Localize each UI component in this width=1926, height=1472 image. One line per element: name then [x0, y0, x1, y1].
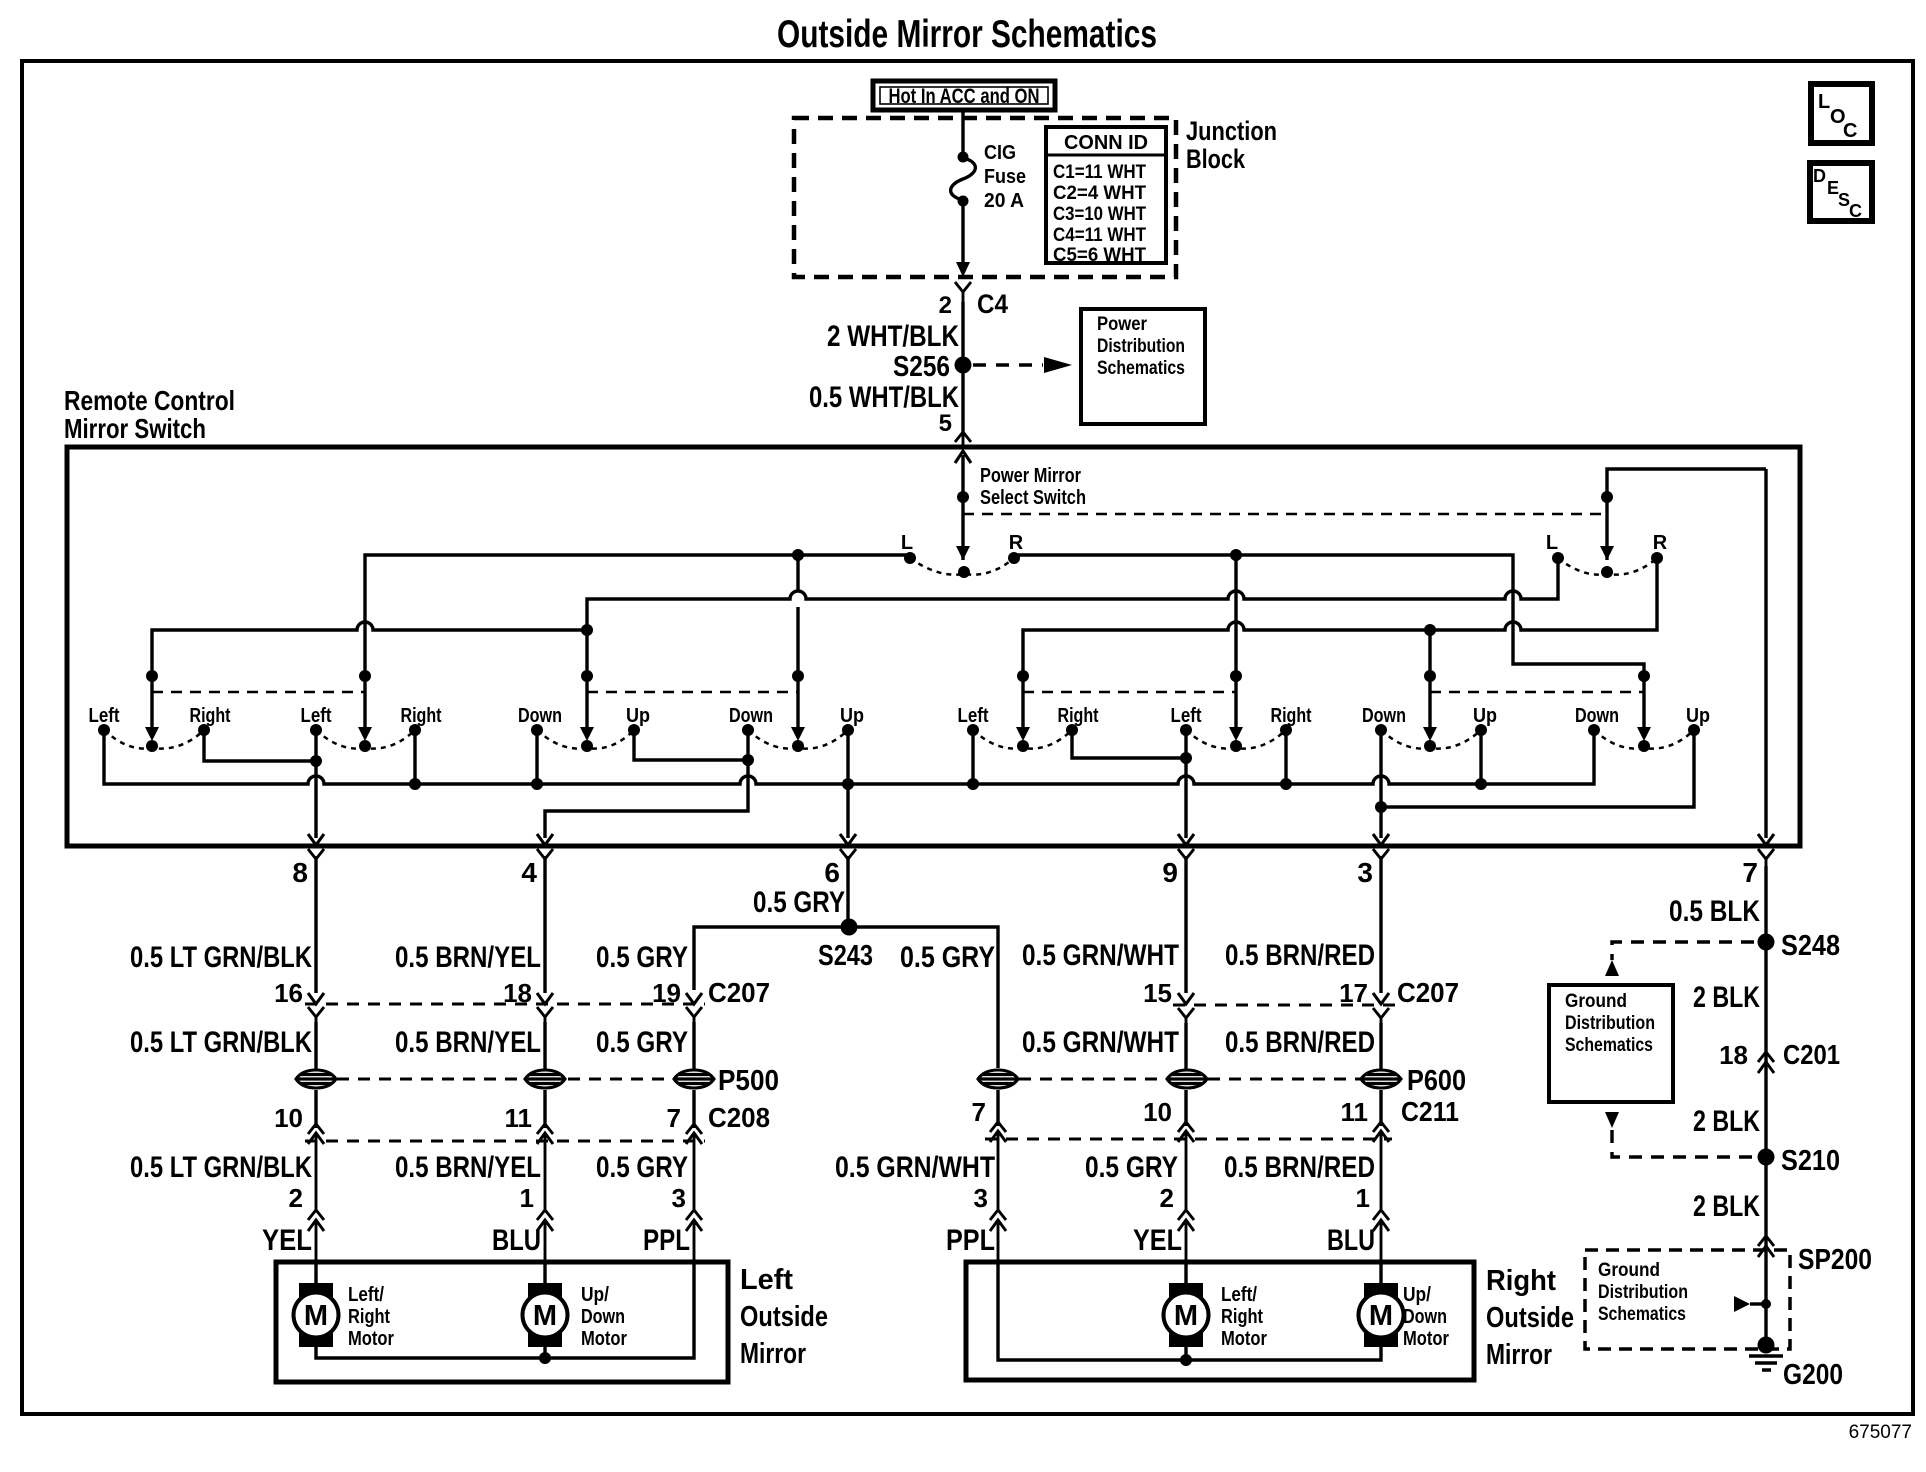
rocker 1 contacts Left/Right	[89, 705, 231, 752]
wire Left3 contact drop	[971, 730, 974, 784]
connector C207 pin 15 arrow	[1178, 993, 1194, 1004]
dashed mechanical links between rockers	[152, 691, 365, 694]
splice pack SP200	[1758, 1236, 1774, 1257]
svg-text:0.5 GRY: 0.5 GRY	[596, 1151, 688, 1184]
svg-text:Right: Right	[1486, 1265, 1556, 1297]
svg-text:Motor: Motor	[1221, 1328, 1267, 1350]
connector C207 pin 15 fork	[1178, 1008, 1194, 1027]
node on select feed left	[957, 491, 969, 503]
svg-text:Left: Left	[740, 1264, 793, 1296]
wire R1 bus y555 to P8	[1014, 555, 1644, 732]
svg-text:M: M	[1369, 1300, 1393, 1332]
connector C207 pin 19 fork	[686, 1007, 702, 1026]
rocker 7 contacts Down/Up	[1362, 705, 1497, 752]
svg-text:Junction: Junction	[1186, 116, 1277, 146]
arrow to pole4	[791, 727, 805, 741]
svg-text:2 WHT/BLK: 2 WHT/BLK	[827, 320, 959, 353]
svg-text:2: 2	[1160, 1183, 1174, 1213]
connector left mirror pin 3 glyphs	[686, 1180, 702, 1262]
connector C211 pin 7 glyphs	[990, 1113, 1006, 1180]
arrow to pole6	[1229, 727, 1243, 741]
left select contact R	[1008, 552, 1020, 564]
node pole5 feed	[1017, 670, 1029, 682]
connector C211 pin 11 glyphs	[1373, 1113, 1389, 1180]
P600 grommet right 2	[1167, 1070, 1207, 1088]
svg-text:Hot In ACC and ON: Hot In ACC and ON	[889, 85, 1040, 108]
svg-text:Left: Left	[301, 705, 332, 727]
svg-text:Right: Right	[1271, 705, 1312, 727]
wire L3 bus y599 with hops	[587, 558, 1558, 732]
svg-text:1: 1	[520, 1183, 534, 1213]
CONN ID table	[1046, 127, 1166, 266]
svg-text:Schematics: Schematics	[1565, 1035, 1653, 1056]
svg-text:S256: S256	[893, 351, 950, 383]
right select wiper dashed arc	[1558, 558, 1657, 575]
svg-text:0.5 GRN/WHT: 0.5 GRN/WHT	[835, 1151, 995, 1184]
node pole8 feed	[1638, 670, 1650, 682]
svg-text:C: C	[1849, 201, 1862, 221]
connector C207 pin 19 arrow	[686, 993, 702, 1004]
wire pin3 column to C207	[1379, 856, 1382, 993]
svg-text:19: 19	[652, 978, 681, 1008]
jog Right1 to pin8 line	[204, 730, 316, 761]
svg-text:BLU: BLU	[492, 1224, 541, 1257]
svg-text:BLU: BLU	[1327, 1224, 1375, 1257]
svg-text:Distribution: Distribution	[1565, 1013, 1655, 1034]
P500 grommet left 2	[525, 1070, 565, 1088]
wire pin5 into box with up arrow	[961, 455, 964, 560]
svg-text:2 BLK: 2 BLK	[1693, 1105, 1760, 1138]
svg-text:Schematics: Schematics	[1598, 1304, 1686, 1325]
svg-text:Fuse: Fuse	[984, 166, 1026, 188]
svg-text:C207: C207	[708, 977, 770, 1008]
svg-text:Mirror: Mirror	[1486, 1339, 1552, 1371]
arrow to pole5	[1016, 727, 1030, 741]
node pole4 feed	[792, 670, 804, 682]
svg-text:3: 3	[672, 1183, 686, 1213]
wire feed P7 vertical	[1428, 630, 1431, 732]
svg-text:2: 2	[289, 1183, 303, 1213]
node pole6 feed	[1230, 670, 1242, 682]
left select contact L	[904, 552, 916, 564]
svg-text:Power: Power	[1097, 314, 1148, 335]
svg-text:R: R	[1653, 532, 1668, 554]
arrow to pole2	[358, 727, 372, 741]
connector C4 fork	[955, 282, 971, 302]
svg-text:Ground: Ground	[1598, 1260, 1660, 1281]
DESC box	[1810, 163, 1872, 221]
svg-text:16: 16	[274, 978, 303, 1008]
svg-text:C: C	[1843, 120, 1857, 142]
connector right mirror pin 3 glyphs	[990, 1180, 1006, 1262]
svg-text:Up: Up	[840, 705, 864, 727]
left/right motor right mirror	[1164, 1283, 1268, 1350]
ground wire pin7 column	[1764, 866, 1767, 1345]
svg-text:Right: Right	[1221, 1306, 1263, 1328]
svg-text:0.5 GRY: 0.5 GRY	[900, 941, 995, 974]
dashed ref S248 to ground distribution	[1612, 942, 1754, 960]
wire line3a y630 with hop over P2	[152, 622, 587, 732]
wire Right2 contact drop	[413, 730, 416, 784]
svg-text:Down: Down	[1403, 1306, 1447, 1328]
svg-text:3: 3	[974, 1183, 988, 1213]
svg-text:7: 7	[1742, 857, 1758, 888]
pin 3 drop	[1379, 730, 1382, 838]
svg-text:C3=10 WHT: C3=10 WHT	[1053, 204, 1146, 225]
svg-text:0.5 LT GRN/BLK: 0.5 LT GRN/BLK	[130, 1026, 312, 1059]
svg-text:YEL: YEL	[1133, 1224, 1182, 1257]
svg-text:Motor: Motor	[1403, 1328, 1449, 1350]
connector C207 left dashed	[305, 1003, 705, 1006]
node line3b joint P7	[1424, 624, 1436, 636]
rocker 8 contacts Down/Up	[1575, 705, 1710, 752]
svg-text:2 BLK: 2 BLK	[1693, 981, 1760, 1014]
left select switch arrow to pole	[956, 546, 970, 560]
wire pin8 column to C207	[314, 856, 317, 993]
svg-text:Down: Down	[1362, 705, 1406, 727]
svg-text:Power Mirror: Power Mirror	[980, 465, 1081, 487]
splice S243 tee	[694, 927, 998, 1068]
svg-text:2 BLK: 2 BLK	[1693, 1190, 1760, 1223]
svg-text:Motor: Motor	[581, 1328, 627, 1350]
jog Up4 to pin3 line	[1381, 730, 1694, 807]
svg-text:L: L	[1546, 532, 1558, 554]
connector C207 pin 16 fork	[308, 1007, 324, 1026]
svg-text:Distribution: Distribution	[1598, 1282, 1688, 1303]
wire pin6 column to S243	[846, 856, 849, 927]
node feed P4	[792, 549, 804, 561]
node pole7 feed	[1424, 670, 1436, 682]
svg-text:7: 7	[972, 1097, 986, 1127]
svg-text:Up: Up	[626, 705, 650, 727]
svg-text:Left: Left	[89, 705, 120, 727]
connector C207 pin 17 fork	[1373, 1008, 1389, 1027]
remote control mirror switch box	[67, 447, 1800, 846]
svg-text:C4=11 WHT: C4=11 WHT	[1053, 225, 1146, 246]
svg-text:8: 8	[292, 857, 308, 888]
connector right mirror pin 1 glyphs	[1373, 1180, 1389, 1262]
node Down1 on bus	[531, 778, 543, 790]
svg-text:Select Switch: Select Switch	[980, 487, 1086, 509]
junction block dashed box	[794, 118, 1176, 277]
svg-text:P500: P500	[718, 1065, 779, 1097]
P500 grommet left 3	[674, 1070, 714, 1088]
wire Up3 contact drop	[1479, 730, 1482, 784]
svg-text:SP200: SP200	[1798, 1244, 1872, 1276]
node feed P6	[1230, 549, 1242, 561]
connector right mirror pin 2 glyphs	[1178, 1180, 1194, 1262]
arrow to pole1	[145, 727, 159, 741]
splice S256	[955, 357, 972, 374]
svg-text:7: 7	[667, 1103, 681, 1133]
svg-text:Outside: Outside	[740, 1301, 828, 1333]
wire Down1 contact drop	[535, 730, 538, 784]
svg-text:Motor: Motor	[348, 1328, 394, 1350]
right select contact R	[1651, 552, 1663, 564]
node Right4 on bus	[1280, 778, 1292, 790]
pin 8 drop	[314, 730, 317, 838]
svg-text:0.5 LT GRN/BLK: 0.5 LT GRN/BLK	[130, 1151, 312, 1184]
svg-text:Mirror Switch: Mirror Switch	[64, 413, 206, 444]
svg-text:6: 6	[824, 857, 840, 888]
svg-text:0.5 WHT/BLK: 0.5 WHT/BLK	[809, 381, 959, 414]
connector C207 pin 17 arrow	[1373, 993, 1389, 1004]
P600 grommet right 3	[1361, 1070, 1401, 1088]
node Up3 on bus	[1475, 778, 1487, 790]
common bus wire y784 with hops	[104, 730, 1594, 784]
svg-text:Right: Right	[348, 1306, 390, 1328]
svg-text:Down: Down	[729, 705, 773, 727]
node on select feed right	[1601, 491, 1613, 503]
svg-text:Left/: Left/	[348, 1284, 384, 1306]
svg-text:C5=6 WHT: C5=6 WHT	[1053, 245, 1146, 266]
svg-text:Right: Right	[401, 705, 442, 727]
rocker 6 contacts Left/Right	[1171, 705, 1312, 752]
left/right motor left mirror	[294, 1283, 395, 1350]
svg-text:18: 18	[1719, 1040, 1748, 1070]
svg-text:2: 2	[939, 292, 952, 319]
node Right2 on bus	[409, 778, 421, 790]
right select feed wire from pin7 line	[1607, 469, 1766, 560]
left select wiper dashed arc	[910, 558, 1014, 575]
wire Right4 contact drop	[1284, 730, 1287, 784]
svg-text:Mirror: Mirror	[740, 1338, 806, 1370]
svg-text:M: M	[1174, 1300, 1198, 1332]
svg-text:0.5 BRN/RED: 0.5 BRN/RED	[1224, 1151, 1375, 1184]
connector C211 pin 10 glyphs	[1178, 1113, 1194, 1180]
pin 4 drop	[545, 730, 748, 838]
svg-text:0.5 GRN/WHT: 0.5 GRN/WHT	[1022, 1026, 1179, 1059]
svg-text:Up: Up	[1686, 705, 1710, 727]
svg-text:Right: Right	[190, 705, 231, 727]
svg-text:M: M	[533, 1300, 557, 1332]
svg-text:R: R	[1009, 532, 1024, 554]
svg-text:P600: P600	[1407, 1065, 1466, 1097]
dashed ref ground distribution to S210	[1612, 1130, 1754, 1157]
right outside mirror box	[966, 1262, 1474, 1380]
svg-text:Outside: Outside	[1486, 1302, 1574, 1334]
svg-text:PPL: PPL	[946, 1224, 995, 1257]
svg-text:D: D	[1813, 166, 1826, 186]
svg-text:Ground: Ground	[1565, 991, 1627, 1012]
svg-text:C201: C201	[1783, 1039, 1840, 1070]
connector C207 pin 18 fork	[537, 1007, 553, 1026]
pin 6 drop	[846, 730, 849, 838]
connector forks below switch box	[292, 849, 1774, 888]
wire L1 bus y555	[365, 555, 910, 732]
node pole3 feed	[581, 670, 593, 682]
right select contact L	[1552, 552, 1564, 564]
node pole1 feed	[146, 670, 158, 682]
rocker 5 contacts Left/Right	[958, 705, 1099, 752]
svg-text:C4: C4	[977, 289, 1008, 319]
svg-text:YEL: YEL	[262, 1224, 312, 1257]
svg-text:C208: C208	[708, 1102, 770, 1133]
rocker 2 contacts Left/Right	[301, 705, 442, 752]
C208/C211 forks above and arrows below	[308, 1113, 1389, 1180]
svg-text:Right: Right	[1058, 705, 1099, 727]
svg-text:0.5 BRN/YEL: 0.5 BRN/YEL	[395, 1026, 541, 1059]
pin 7 drop inside box	[1764, 469, 1767, 838]
wire line3b y630 with hops	[1023, 558, 1657, 732]
svg-text:0.5 BRN/RED: 0.5 BRN/RED	[1225, 1026, 1375, 1059]
left mirror internal wires	[316, 1262, 694, 1358]
svg-text:20 A: 20 A	[984, 190, 1024, 212]
svg-text:C1=11 WHT: C1=11 WHT	[1053, 162, 1146, 183]
svg-text:S243: S243	[818, 940, 873, 972]
node Up2 on bus	[842, 778, 854, 790]
svg-text:0.5 GRY: 0.5 GRY	[753, 886, 845, 919]
svg-text:Outside Mirror Schematics: Outside Mirror Schematics	[777, 13, 1157, 56]
svg-text:Remote Control: Remote Control	[64, 385, 235, 416]
svg-text:0.5 BLK: 0.5 BLK	[1669, 895, 1760, 928]
right mirror internal wires	[998, 1262, 1381, 1360]
svg-text:675077: 675077	[1849, 1422, 1912, 1443]
svg-text:S248: S248	[1781, 930, 1840, 962]
svg-text:Down: Down	[1575, 705, 1619, 727]
node line3a joint P3	[581, 624, 593, 636]
pin 5 fork into switch box	[955, 432, 971, 447]
svg-text:0.5 GRN/WHT: 0.5 GRN/WHT	[1022, 939, 1179, 972]
wire pin4 column to C207	[543, 856, 546, 993]
svg-text:0.5 BRN/YEL: 0.5 BRN/YEL	[395, 941, 541, 974]
svg-text:L: L	[1818, 91, 1830, 113]
arrow to pole3	[580, 727, 594, 741]
node pole2 feed	[359, 670, 371, 682]
svg-text:Left: Left	[958, 705, 989, 727]
svg-text:11: 11	[1341, 1097, 1369, 1127]
svg-text:C207: C207	[1397, 977, 1459, 1008]
rocker 3 contacts Down/Up	[518, 705, 650, 752]
svg-text:0.5 GRY: 0.5 GRY	[596, 1026, 688, 1059]
ground distribution schematics box 2 dashed	[1585, 1250, 1790, 1349]
svg-text:0.5 GRY: 0.5 GRY	[1085, 1151, 1178, 1184]
svg-text:Up/: Up/	[581, 1284, 609, 1306]
svg-text:CONN ID: CONN ID	[1064, 132, 1148, 154]
svg-text:Distribution: Distribution	[1097, 336, 1185, 357]
connector left mirror pin 1 glyphs	[537, 1180, 553, 1262]
svg-text:0.5 LT GRN/BLK: 0.5 LT GRN/BLK	[130, 941, 312, 974]
svg-text:Up: Up	[1473, 705, 1497, 727]
svg-text:Down: Down	[518, 705, 562, 727]
right select switch pole	[1601, 566, 1613, 578]
splice S248	[1758, 934, 1775, 951]
fuse CIG 20A	[951, 142, 1026, 212]
svg-text:Left/: Left/	[1221, 1284, 1257, 1306]
pin 9 drop	[1184, 730, 1187, 838]
dashed arrow S256 to power distribution box	[973, 363, 1043, 366]
connector left mirror pin 2 glyphs	[308, 1180, 324, 1262]
svg-text:M: M	[304, 1300, 328, 1332]
svg-text:0.5 BRN/RED: 0.5 BRN/RED	[1225, 939, 1375, 972]
connector C207 right dashed	[1173, 1004, 1395, 1007]
connector C207 pin 16 arrow	[308, 993, 324, 1004]
C208 dashed	[305, 1140, 705, 1143]
svg-text:Block: Block	[1186, 144, 1246, 174]
svg-text:L: L	[901, 532, 913, 554]
node Left3 on bus	[967, 778, 979, 790]
svg-text:17: 17	[1339, 978, 1368, 1008]
power distribution schematics box	[1081, 309, 1205, 424]
svg-text:Left: Left	[1171, 705, 1202, 727]
arrow to pole7	[1423, 727, 1437, 741]
svg-text:1: 1	[1356, 1183, 1370, 1213]
wire hot box to fuse	[961, 110, 964, 152]
jog Up1 to pin4 line	[634, 730, 748, 760]
ground tap arrow	[1734, 1296, 1750, 1312]
wire feed P6 vertical	[1234, 555, 1237, 732]
svg-text:4: 4	[521, 857, 537, 888]
svg-text:10: 10	[274, 1103, 303, 1133]
P500 dashed pass-through row	[316, 1078, 694, 1081]
wire pin9 column to C207	[1184, 856, 1187, 993]
svg-text:G200: G200	[1783, 1359, 1843, 1391]
svg-text:Up/: Up/	[1403, 1284, 1431, 1306]
svg-text:0.5 BRN/YEL: 0.5 BRN/YEL	[395, 1151, 541, 1184]
right select switch arrow to pole	[1600, 546, 1614, 560]
C211 dashed	[985, 1138, 1392, 1141]
splice S210	[1758, 1149, 1775, 1166]
svg-text:CIG: CIG	[984, 142, 1016, 164]
svg-text:0.5 GRY: 0.5 GRY	[596, 941, 688, 974]
svg-text:3: 3	[1357, 857, 1373, 888]
svg-text:5: 5	[939, 410, 952, 437]
ground distribution schematics box 1	[1549, 985, 1673, 1102]
mirror pigtail connectors	[308, 1180, 1389, 1262]
wires C207 to P500/P600 row	[316, 1022, 1381, 1069]
wire C4 to S256	[961, 302, 964, 432]
rocker 4 contacts Down/Up	[729, 705, 864, 752]
wire feed P4 vertical	[796, 555, 799, 732]
jog Right3 to pin9 line	[1072, 730, 1186, 758]
up/down motor left mirror	[523, 1283, 628, 1350]
hot in ACC and ON box	[873, 81, 1055, 110]
ground G200	[1758, 1337, 1775, 1354]
P500 grommet left 1	[296, 1070, 336, 1088]
connector C208 pin 7 glyphs	[686, 1115, 702, 1180]
connector C207 pin 18 arrow	[537, 993, 553, 1004]
svg-text:Down: Down	[581, 1306, 625, 1328]
svg-text:10: 10	[1143, 1097, 1172, 1127]
up/down motor right mirror	[1359, 1283, 1450, 1350]
left select switch pole	[958, 566, 970, 578]
svg-text:15: 15	[1143, 978, 1172, 1008]
connector C208 pin 11 glyphs	[537, 1115, 553, 1180]
select switch mechanical dashed link	[963, 513, 1607, 516]
arrow to pole8	[1637, 727, 1651, 741]
connector C208 pin 10 glyphs	[308, 1115, 324, 1180]
wires P500 to C208/C211	[316, 1090, 1381, 1128]
svg-text:C211: C211	[1401, 1096, 1459, 1127]
P600 grommet right 1	[978, 1070, 1018, 1088]
svg-text:S210: S210	[1781, 1145, 1840, 1177]
svg-text:Schematics: Schematics	[1097, 358, 1185, 379]
svg-text:9: 9	[1162, 857, 1178, 888]
wire fuse to junction box bottom with arrow	[961, 201, 964, 268]
LOC box	[1811, 84, 1872, 143]
left outside mirror box	[276, 1262, 728, 1382]
svg-text:18: 18	[503, 978, 532, 1008]
svg-text:C2=4 WHT: C2=4 WHT	[1053, 183, 1146, 204]
svg-text:PPL: PPL	[643, 1224, 690, 1257]
svg-text:11: 11	[505, 1103, 533, 1133]
